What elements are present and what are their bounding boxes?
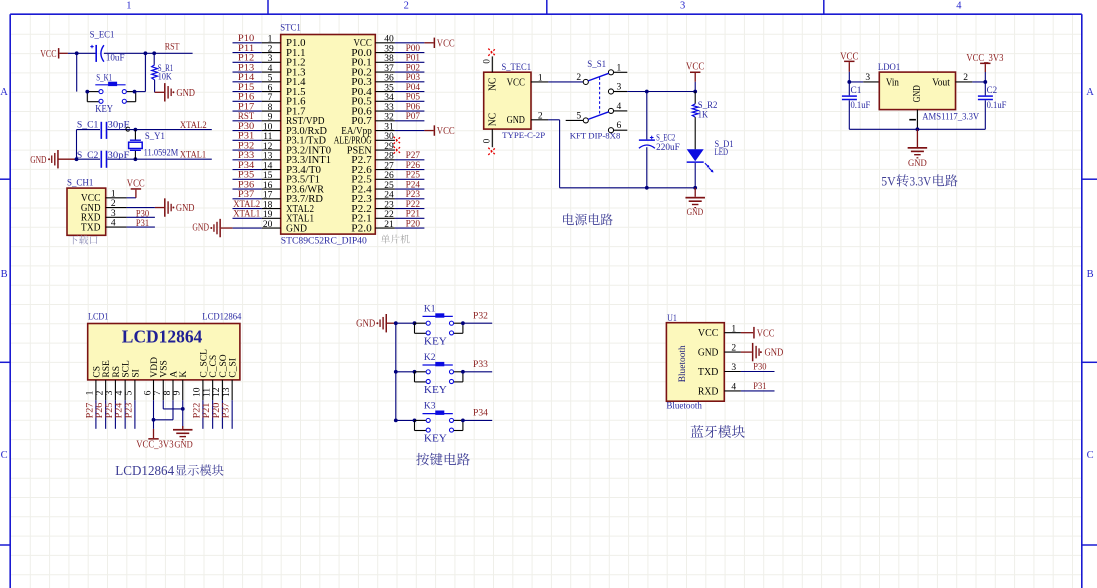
svg-text:2: 2 [963, 73, 968, 83]
svg-text:S_C2: S_C2 [77, 151, 99, 161]
svg-text:1: 1 [86, 390, 96, 395]
svg-text:RST: RST [165, 42, 180, 52]
svg-text:P13: P13 [238, 63, 255, 73]
svg-text:P21: P21 [406, 210, 421, 220]
svg-text:2: 2 [576, 73, 581, 83]
svg-text:0.1uF: 0.1uF [851, 101, 871, 111]
svg-text:1: 1 [617, 63, 622, 73]
svg-text:220uF: 220uF [656, 143, 680, 153]
svg-text:B: B [1087, 269, 1094, 280]
svg-text:10K: 10K [158, 73, 172, 83]
svg-text:P14: P14 [238, 73, 255, 83]
svg-text:8: 8 [268, 103, 273, 113]
svg-text:18: 18 [263, 200, 273, 210]
svg-text:4: 4 [111, 219, 116, 229]
svg-text:P37: P37 [222, 402, 232, 418]
svg-text:5: 5 [125, 390, 135, 395]
svg-text:1: 1 [111, 189, 116, 199]
svg-text:17: 17 [263, 191, 273, 201]
svg-text:P37: P37 [238, 190, 255, 200]
svg-text:2: 2 [111, 199, 116, 209]
svg-text:P30: P30 [136, 209, 149, 219]
svg-text:Bluetooth: Bluetooth [678, 345, 688, 382]
svg-text:GND: GND [286, 223, 307, 234]
svg-text:P00: P00 [406, 44, 421, 54]
svg-text:29: 29 [384, 142, 394, 152]
svg-text:3: 3 [865, 73, 870, 83]
svg-text:P17: P17 [238, 102, 255, 112]
svg-text:3.3V: 3.3V [910, 173, 932, 188]
svg-text:16: 16 [263, 181, 273, 191]
svg-text:23: 23 [384, 200, 394, 210]
svg-text:4: 4 [731, 383, 736, 393]
svg-text:C_SCL: C_SCL [199, 349, 209, 378]
svg-text:39: 39 [384, 44, 394, 54]
svg-text:19: 19 [263, 210, 273, 220]
svg-text:2: 2 [268, 44, 273, 54]
svg-text:P30: P30 [753, 363, 766, 373]
svg-text:1: 1 [731, 324, 736, 334]
svg-text:P31: P31 [136, 219, 149, 229]
svg-text:10uF: 10uF [106, 53, 125, 63]
svg-text:2: 2 [538, 112, 543, 122]
svg-text:1: 1 [126, 0, 131, 11]
svg-text:GND: GND [908, 159, 927, 169]
svg-text:4: 4 [115, 390, 125, 395]
svg-text:KEY: KEY [424, 336, 447, 347]
svg-text:13: 13 [222, 387, 232, 397]
svg-text:2: 2 [404, 0, 409, 11]
svg-text:5: 5 [268, 74, 273, 84]
svg-text:10: 10 [193, 387, 203, 397]
svg-text:VCC: VCC [757, 327, 775, 339]
svg-text:P23: P23 [406, 190, 421, 200]
svg-text:P32: P32 [238, 141, 255, 151]
svg-text:P26: P26 [95, 402, 105, 418]
svg-text:P22: P22 [406, 200, 421, 210]
svg-text:LCD12864: LCD12864 [122, 327, 203, 347]
svg-text:VCC: VCC [40, 48, 56, 60]
svg-text:1K: 1K [698, 110, 708, 120]
svg-text:11.0592M: 11.0592M [144, 149, 179, 159]
svg-text:RXD: RXD [698, 386, 719, 397]
svg-text:40: 40 [384, 35, 394, 45]
svg-text:K: K [179, 371, 189, 378]
svg-text:13: 13 [263, 152, 273, 162]
svg-text:A: A [1086, 87, 1094, 98]
svg-text:35: 35 [384, 83, 394, 93]
svg-text:VDD: VDD [150, 357, 160, 378]
svg-text:P12: P12 [238, 54, 255, 64]
svg-text:TXD: TXD [698, 367, 719, 378]
svg-text:9: 9 [268, 113, 273, 123]
svg-text:C: C [1, 450, 8, 461]
svg-text:P11: P11 [238, 44, 255, 54]
svg-text:XTAL2: XTAL2 [233, 200, 260, 210]
svg-text:P27: P27 [85, 402, 95, 418]
svg-text:VSS: VSS [160, 360, 170, 377]
svg-text:VCC: VCC [437, 125, 455, 137]
svg-text:LCD1: LCD1 [88, 313, 109, 323]
svg-text:A: A [169, 371, 179, 378]
svg-text:P15: P15 [238, 83, 255, 93]
svg-text:K1: K1 [424, 304, 436, 314]
svg-text:VCC: VCC [507, 77, 525, 88]
svg-text:0: 0 [481, 59, 491, 64]
svg-text:6: 6 [268, 83, 273, 93]
svg-text:GND: GND [356, 318, 375, 330]
svg-text:S_Y1: S_Y1 [145, 132, 165, 142]
svg-text:3: 3 [731, 363, 736, 373]
svg-text:5V: 5V [881, 173, 896, 188]
svg-text:RS: RS [112, 366, 122, 378]
svg-text:24: 24 [384, 191, 394, 201]
svg-text:P24: P24 [115, 402, 125, 418]
svg-text:P34: P34 [473, 409, 488, 419]
svg-text:C_SO: C_SO [219, 354, 229, 377]
svg-text:P20: P20 [406, 219, 421, 229]
svg-text:SCL: SCL [122, 360, 132, 378]
svg-text:27: 27 [384, 161, 394, 171]
svg-text:P31: P31 [238, 132, 255, 142]
svg-text:S_EC2: S_EC2 [656, 134, 675, 144]
svg-text:GND: GND [698, 348, 719, 359]
svg-text:GND: GND [30, 154, 46, 166]
svg-text:P30: P30 [238, 122, 255, 132]
svg-text:RSE: RSE [102, 360, 112, 378]
svg-text:KEY: KEY [95, 104, 113, 115]
svg-text:VCC: VCC [698, 328, 719, 339]
svg-text:GND: GND [176, 87, 195, 99]
svg-text:6: 6 [617, 121, 622, 131]
svg-text:Vin: Vin [886, 77, 900, 88]
svg-text:36: 36 [384, 74, 394, 84]
svg-text:GND: GND [192, 222, 209, 234]
svg-text:KEY: KEY [424, 385, 447, 396]
svg-text:34: 34 [384, 93, 394, 103]
svg-text:3: 3 [268, 54, 273, 64]
svg-text:31: 31 [384, 122, 394, 132]
svg-text:P04: P04 [406, 83, 421, 93]
svg-text:TXD: TXD [81, 222, 101, 233]
svg-text:P07: P07 [406, 112, 421, 122]
svg-text:P06: P06 [406, 102, 421, 112]
svg-text:3: 3 [111, 209, 116, 219]
svg-text:P05: P05 [406, 93, 421, 103]
svg-text:STC89C52RC_DIP40: STC89C52RC_DIP40 [281, 237, 367, 247]
svg-text:30pF: 30pF [108, 151, 130, 161]
svg-text:GND: GND [765, 347, 784, 359]
svg-text:GND: GND [174, 440, 192, 450]
svg-text:STC1: STC1 [280, 24, 301, 34]
svg-text:LDO1: LDO1 [878, 63, 901, 73]
svg-text:P26: P26 [406, 161, 421, 171]
svg-text:P33: P33 [238, 151, 255, 161]
svg-text:P27: P27 [406, 151, 421, 161]
svg-text:C: C [1087, 450, 1094, 461]
svg-text:VCC: VCC [127, 177, 145, 189]
svg-text:CS: CS [92, 366, 102, 378]
svg-text:GND: GND [507, 115, 526, 126]
svg-text:1: 1 [538, 74, 543, 84]
svg-text:KEY: KEY [424, 434, 447, 445]
svg-text:8: 8 [163, 390, 173, 395]
svg-text:VCC_3V3: VCC_3V3 [136, 439, 173, 450]
svg-text:25: 25 [384, 181, 394, 191]
svg-text:P25: P25 [406, 171, 421, 181]
svg-text:NC: NC [488, 78, 499, 91]
svg-text:XTAL2: XTAL2 [180, 121, 207, 131]
svg-text:Bluetooth: Bluetooth [666, 401, 702, 411]
svg-text:4: 4 [617, 102, 622, 112]
svg-text:28: 28 [384, 152, 394, 162]
svg-text:26: 26 [384, 171, 394, 181]
svg-text:U1: U1 [667, 314, 677, 324]
svg-text:NC: NC [488, 113, 499, 126]
svg-text:14: 14 [263, 161, 273, 171]
svg-text:S_K1: S_K1 [96, 73, 112, 83]
svg-text:RST: RST [238, 112, 254, 122]
svg-text:P01: P01 [406, 54, 421, 64]
svg-text:P20: P20 [212, 402, 222, 418]
svg-text:15: 15 [263, 171, 273, 181]
svg-text:C1: C1 [851, 86, 862, 96]
svg-text:30: 30 [384, 132, 394, 142]
svg-text:P22: P22 [192, 402, 202, 418]
svg-text:3: 3 [617, 83, 622, 93]
svg-text:LCD12864: LCD12864 [115, 464, 174, 479]
svg-text:21: 21 [384, 220, 394, 230]
svg-text:9: 9 [173, 390, 183, 395]
svg-text:P23: P23 [124, 402, 134, 418]
svg-text:C_SI: C_SI [229, 358, 239, 378]
svg-text:VCC: VCC [686, 61, 704, 73]
svg-text:7: 7 [268, 93, 273, 103]
svg-text:S_S1: S_S1 [587, 60, 606, 70]
svg-text:GND: GND [912, 85, 923, 102]
svg-text:22: 22 [384, 210, 394, 220]
svg-text:0.1uF: 0.1uF [987, 101, 1007, 111]
svg-text:Vout: Vout [932, 77, 950, 88]
svg-text:3: 3 [680, 0, 685, 11]
svg-text:C_CS: C_CS [209, 355, 219, 378]
svg-text:A: A [0, 87, 8, 98]
svg-text:2: 2 [731, 344, 736, 354]
svg-text:P24: P24 [406, 180, 421, 190]
svg-text:S_C1: S_C1 [77, 120, 99, 130]
svg-text:37: 37 [384, 64, 394, 74]
svg-text:1: 1 [268, 35, 273, 45]
svg-text:P2.0: P2.0 [351, 223, 372, 234]
svg-text:33: 33 [384, 103, 394, 113]
svg-text:10: 10 [263, 122, 273, 132]
svg-text:XTAL1: XTAL1 [233, 210, 260, 220]
svg-text:12: 12 [263, 142, 273, 152]
svg-text:0: 0 [481, 138, 491, 143]
svg-text:GND: GND [176, 202, 195, 214]
svg-text:P25: P25 [105, 402, 115, 418]
svg-text:P16: P16 [238, 93, 255, 103]
svg-text:P03: P03 [406, 73, 421, 83]
svg-text:7: 7 [153, 390, 163, 395]
svg-text:TYPE-C-2P: TYPE-C-2P [502, 130, 545, 140]
svg-text:38: 38 [384, 54, 394, 64]
svg-text:P35: P35 [238, 171, 255, 181]
svg-text:SI: SI [131, 369, 141, 377]
svg-text:LED: LED [715, 148, 729, 158]
svg-text:P02: P02 [406, 63, 421, 73]
svg-text:P36: P36 [238, 180, 255, 190]
svg-text:11: 11 [263, 132, 272, 142]
svg-text:3: 3 [105, 390, 115, 395]
svg-text:P21: P21 [202, 402, 212, 418]
svg-text:4: 4 [956, 0, 962, 11]
svg-text:LCD12864: LCD12864 [202, 313, 241, 323]
svg-text:32: 32 [384, 113, 394, 123]
svg-text:S_EC1: S_EC1 [90, 31, 115, 41]
svg-text:AMS1117_3.3V: AMS1117_3.3V [922, 112, 979, 122]
svg-text:GND: GND [687, 207, 704, 217]
svg-text:S_CH1: S_CH1 [67, 179, 94, 189]
svg-text:C2: C2 [987, 86, 998, 96]
svg-text:VCC: VCC [437, 37, 455, 49]
svg-text:6: 6 [143, 390, 153, 395]
svg-text:P31: P31 [753, 382, 766, 392]
svg-text:P32: P32 [473, 311, 488, 321]
svg-text:4: 4 [268, 64, 273, 74]
svg-text:B: B [1, 269, 8, 280]
svg-text:P33: P33 [473, 360, 488, 370]
svg-text:2: 2 [95, 390, 105, 395]
svg-text:XTAL1: XTAL1 [180, 150, 207, 160]
svg-text:11: 11 [202, 388, 212, 397]
svg-text:P10: P10 [238, 34, 255, 44]
svg-text:P34: P34 [238, 161, 255, 171]
svg-text:K2: K2 [424, 353, 436, 363]
svg-text:VCC_3V3: VCC_3V3 [966, 52, 1003, 64]
svg-text:K3: K3 [424, 402, 436, 412]
svg-text:S_TEC1: S_TEC1 [502, 63, 532, 73]
svg-text:12: 12 [212, 387, 222, 397]
svg-text:20: 20 [263, 220, 273, 230]
